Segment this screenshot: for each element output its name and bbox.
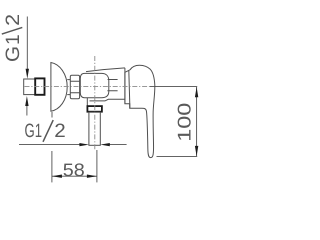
svg-text:58: 58 — [63, 160, 85, 180]
svg-text:2: 2 — [54, 121, 66, 142]
svg-text:2: 2 — [3, 14, 24, 26]
svg-text:100: 100 — [174, 103, 195, 142]
svg-text:1: 1 — [3, 34, 24, 45]
svg-text:G1: G1 — [25, 121, 43, 142]
svg-text:G: G — [3, 46, 24, 62]
